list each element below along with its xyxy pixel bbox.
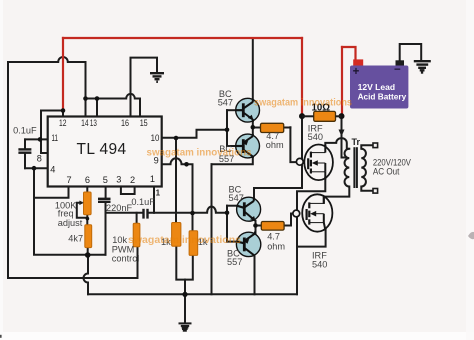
svg-text:10: 10 <box>151 133 160 143</box>
svg-text:547: 547 <box>218 97 233 107</box>
svg-text:adjust: adjust <box>58 218 83 228</box>
svg-text:0.1uF: 0.1uF <box>131 197 155 207</box>
svg-text:swagatam innovations: swagatam innovations <box>254 97 352 109</box>
svg-text:3: 3 <box>116 175 121 185</box>
svg-text:11: 11 <box>52 133 59 143</box>
svg-text:ohm: ohm <box>266 140 284 150</box>
svg-text:swagatam innovations: swagatam innovations <box>147 147 252 159</box>
svg-text:control: control <box>112 254 140 264</box>
svg-text:557: 557 <box>227 257 242 267</box>
svg-text:0.1uF: 0.1uF <box>13 126 37 136</box>
svg-text:1: 1 <box>150 174 155 184</box>
svg-text:7: 7 <box>66 175 71 185</box>
svg-text:4: 4 <box>50 165 55 175</box>
svg-text:220nF: 220nF <box>106 203 132 213</box>
svg-text:AC Out: AC Out <box>373 167 400 177</box>
svg-text:8: 8 <box>37 154 42 164</box>
svg-text:6: 6 <box>85 175 90 185</box>
svg-text:15: 15 <box>140 118 148 128</box>
svg-text:1: 1 <box>156 188 161 197</box>
svg-text:14: 14 <box>81 118 89 128</box>
svg-text:540: 540 <box>312 259 327 269</box>
svg-text:12: 12 <box>59 118 67 128</box>
svg-text:Acid Battery: Acid Battery <box>358 92 407 102</box>
svg-text:Tr: Tr <box>352 137 361 147</box>
svg-text:2: 2 <box>130 175 135 185</box>
svg-text:ohm: ohm <box>267 241 285 251</box>
svg-text:+: + <box>353 66 360 78</box>
svg-text:547: 547 <box>229 193 244 203</box>
svg-text:−: − <box>394 64 401 76</box>
svg-text:540: 540 <box>308 132 323 142</box>
svg-text:13: 13 <box>90 118 97 128</box>
svg-text:16: 16 <box>121 118 129 128</box>
svg-text:freq: freq <box>58 208 74 218</box>
svg-text:TL 494: TL 494 <box>76 141 126 158</box>
svg-text:swagatam innovations: swagatam innovations <box>128 234 241 246</box>
svg-text:4k7: 4k7 <box>68 234 83 244</box>
svg-text:4.7: 4.7 <box>267 232 280 242</box>
svg-text:5: 5 <box>103 175 108 185</box>
